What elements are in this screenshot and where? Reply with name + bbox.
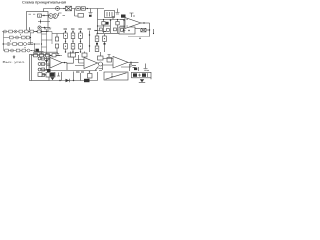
svg-text:Вых. усил.: Вых. усил. <box>3 60 26 64</box>
svg-text:Схема принципиальная: Схема принципиальная <box>22 0 66 4</box>
